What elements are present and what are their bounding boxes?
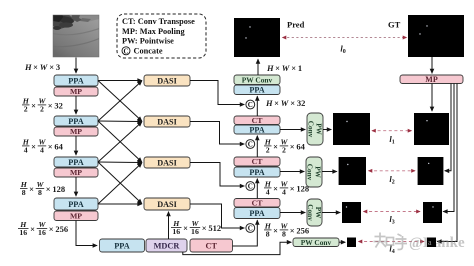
svg-text:×: × <box>273 183 278 193</box>
svg-text:MP: MP <box>70 127 82 136</box>
svg-text:2: 2 <box>40 105 44 114</box>
wire CT3 to PPA decoder 2 <box>256 136 258 157</box>
svg-text:H: H <box>24 62 32 72</box>
svg-text:H: H <box>266 63 274 73</box>
svg-text:MP: MP <box>70 87 82 96</box>
svg-text:CT: Conv Transpose: CT: Conv Transpose <box>122 17 195 26</box>
svg-text:256: 256 <box>296 225 309 235</box>
block MP level 4 <box>54 211 98 221</box>
wire MP3 to PPA4 <box>75 177 77 196</box>
block PPA decoder 2 <box>234 125 280 134</box>
block DASI 2 <box>144 116 190 127</box>
svg-text:PPA: PPA <box>68 117 84 126</box>
block PW Conv head 2 <box>306 157 322 187</box>
concat circle C4 <box>246 224 255 233</box>
GT image level 4 <box>427 238 436 248</box>
svg-text:×: × <box>202 223 207 233</box>
wire PW Conv top to Pred <box>257 59 259 75</box>
wire PPA3 to DASI3 <box>98 161 142 164</box>
svg-text:×: × <box>33 62 38 72</box>
wire MDCR to DASI4 <box>168 212 170 239</box>
pred image level 2 <box>339 157 366 185</box>
label H/2 x W/2 x 64 <box>264 137 306 154</box>
concat circle C2 <box>246 140 255 149</box>
svg-text:2: 2 <box>282 146 286 155</box>
svg-text:8: 8 <box>22 188 26 197</box>
wire DASI1 to concat C1 <box>190 81 244 105</box>
block PPA encoder level 2 <box>54 116 98 126</box>
svg-text:×: × <box>290 141 295 151</box>
wire PPA2 to DASI2 <box>98 120 142 123</box>
svg-text:CT: CT <box>252 116 264 125</box>
svg-text:16: 16 <box>172 227 180 236</box>
svg-text:PW: PW <box>314 207 322 219</box>
wire MP1 to PPA2 <box>75 96 77 114</box>
block MDCR <box>146 239 187 252</box>
svg-text:PW: Pointwise: PW: Pointwise <box>122 37 174 46</box>
svg-text:4: 4 <box>266 188 270 197</box>
svg-text:GT: GT <box>388 19 401 29</box>
pred image level 4 <box>347 238 356 248</box>
svg-text:×: × <box>275 63 280 73</box>
wire DASI4 to concat C4 <box>190 204 244 228</box>
wire MP2 to PPA3 <box>75 136 77 155</box>
svg-text:×: × <box>273 141 278 151</box>
wire PW head 3 to pred level 3 <box>322 212 340 214</box>
block CT decoder 2 <box>234 116 280 125</box>
svg-text:4: 4 <box>282 188 286 197</box>
svg-text:×: × <box>273 225 278 235</box>
block DASI 3 <box>144 157 190 168</box>
wire PPA3 to DASI4 <box>98 162 142 204</box>
svg-text:16: 16 <box>38 228 46 237</box>
wire MDCR to PW Conv head 4 <box>183 242 291 254</box>
svg-text:4: 4 <box>24 146 28 155</box>
input image H x W x 3 <box>53 15 99 57</box>
block PPA decoder 4 <box>234 208 280 219</box>
block MP level 1 <box>54 87 98 96</box>
svg-text:×: × <box>46 184 51 194</box>
svg-text:32: 32 <box>54 100 63 110</box>
wire PPA4 to DASI3 <box>98 163 142 204</box>
wire MP to GT level 2 <box>445 84 451 171</box>
svg-text:MP: MP <box>70 168 82 177</box>
svg-text:PW Conv: PW Conv <box>301 238 332 247</box>
svg-text:PPA: PPA <box>249 168 264 177</box>
svg-text:PW: PW <box>315 123 323 135</box>
wire MP to GT level 1 <box>431 84 433 112</box>
svg-text:MP: MP <box>70 211 82 220</box>
block PPA encoder level 3 <box>54 157 98 167</box>
wire MP4 to bottleneck PPA <box>76 221 97 246</box>
svg-text:×: × <box>48 141 53 151</box>
svg-text:16: 16 <box>19 228 27 237</box>
svg-text:C: C <box>248 101 253 109</box>
legend box <box>117 14 206 58</box>
svg-text:H: H <box>265 98 273 108</box>
block PW Conv head 1 <box>307 113 323 145</box>
svg-text:4: 4 <box>40 146 44 155</box>
svg-text:×: × <box>274 98 279 108</box>
label H/16 x W/16 x 256 <box>18 220 68 237</box>
svg-text:PPA: PPA <box>68 76 84 85</box>
loss l0 dashed arrow <box>283 38 407 56</box>
svg-text:PW Conv: PW Conv <box>242 75 273 84</box>
wire PPA decoder 2 to PW head 1 <box>280 129 305 131</box>
wire PPA decoder 4 to PW head 3 <box>280 212 305 214</box>
GT image level 1 <box>414 113 449 145</box>
svg-text:@Danke: @Danke <box>409 235 465 251</box>
block CT bottleneck <box>190 239 233 252</box>
svg-text:512: 512 <box>208 223 221 233</box>
svg-text:×: × <box>290 225 295 235</box>
block PPA decoder 3 <box>234 167 280 177</box>
label H x W x 1 <box>266 63 302 73</box>
svg-text:64: 64 <box>54 141 63 151</box>
svg-text:Pred: Pred <box>287 19 305 29</box>
svg-text:×: × <box>49 62 54 72</box>
block PW Conv head 3 <box>306 199 322 226</box>
svg-text:16: 16 <box>191 227 199 236</box>
svg-text:×: × <box>31 141 36 151</box>
wire PW Conv head 4 to pred level 4 <box>339 241 345 243</box>
loss l3 dashed arrow <box>364 212 421 226</box>
svg-text:C: C <box>124 48 129 55</box>
svg-text:×: × <box>30 224 35 234</box>
block PPA bottleneck <box>100 239 145 252</box>
svg-text:×: × <box>183 223 188 233</box>
block PPA encoder level 1 <box>54 75 98 86</box>
label H x W x 32 <box>265 98 305 108</box>
label H/8 x W/8 x 128 <box>20 180 65 197</box>
svg-text:CT: CT <box>252 198 264 207</box>
svg-text:C: C <box>248 225 253 233</box>
svg-text:Concate: Concate <box>134 47 163 56</box>
svg-text:256: 256 <box>55 224 68 234</box>
block CT decoder 3 <box>234 157 280 166</box>
svg-text:CT: CT <box>252 157 264 166</box>
watermark zhihu <box>374 233 408 250</box>
loss l2 dashed arrow <box>369 171 416 186</box>
wire PPA3 to DASI2 <box>98 122 142 162</box>
block DASI 1 <box>144 75 190 86</box>
wire PPA1 to DASI1 <box>98 80 142 82</box>
wire MP to GT level 4 <box>437 84 457 242</box>
block PW Conv head 4 <box>293 238 339 247</box>
concat circle C3 <box>246 182 255 191</box>
label H x W x 3 <box>24 62 60 72</box>
svg-text:2: 2 <box>266 146 270 155</box>
svg-text:Conv: Conv <box>307 121 315 138</box>
svg-text:8: 8 <box>266 230 270 239</box>
svg-text:8: 8 <box>282 230 286 239</box>
svg-text:2: 2 <box>24 105 28 114</box>
block PPA decoder top <box>234 85 280 95</box>
svg-text:DASI: DASI <box>157 200 177 209</box>
svg-text:8: 8 <box>38 188 42 197</box>
block MP downsample GT <box>400 75 463 84</box>
wire GT to MP <box>431 57 433 73</box>
svg-text:PPA: PPA <box>114 241 130 250</box>
svg-text:MDCR: MDCR <box>154 241 181 250</box>
wire PW head 2 to pred level 2 <box>322 171 337 173</box>
block PW Conv decoder top <box>234 75 280 85</box>
wire CT bottleneck to PPA decoder 4 <box>233 220 258 246</box>
svg-text:CT: CT <box>205 241 217 250</box>
loss l1 dashed arrow <box>372 131 412 146</box>
svg-text:1: 1 <box>298 63 302 73</box>
svg-text:×: × <box>290 98 295 108</box>
wire CT4 to PPA decoder 3 <box>256 179 258 199</box>
svg-text:×: × <box>290 183 295 193</box>
svg-text:×: × <box>48 100 53 110</box>
wire CT2 to PPA decoder top <box>256 96 258 116</box>
svg-text:a: a <box>428 238 432 247</box>
wire PPA decoder 3 to PW head 2 <box>280 171 304 173</box>
svg-text:3: 3 <box>56 62 60 72</box>
pred image level 3 <box>342 202 361 223</box>
svg-text:32: 32 <box>297 98 306 108</box>
label H/2 x W/2 x 32 <box>22 96 63 113</box>
svg-text:DASI: DASI <box>157 76 177 85</box>
svg-text:DASI: DASI <box>157 158 177 167</box>
label H/8 x W/8 x 256 <box>264 221 309 238</box>
block DASI 4 <box>144 198 190 210</box>
svg-text:128: 128 <box>52 184 65 194</box>
wire PPA2 to DASI1 <box>98 81 142 121</box>
svg-text:×: × <box>29 184 34 194</box>
wire input image to PPA1 <box>75 58 77 74</box>
svg-text:PPA: PPA <box>249 209 264 218</box>
block CT decoder 4 <box>234 198 280 207</box>
pred image full scale <box>234 18 280 57</box>
svg-text:Conv: Conv <box>306 164 314 181</box>
svg-text:MP: Max Pooling: MP: Max Pooling <box>122 27 186 36</box>
loss l4 dashed arrow <box>359 242 425 256</box>
svg-text:C: C <box>248 141 253 149</box>
wire PPA4 to DASI4 <box>98 203 142 205</box>
block PPA encoder level 4 <box>54 198 98 210</box>
svg-text:MP: MP <box>425 75 438 84</box>
wire MP to GT level 3 <box>443 84 454 212</box>
block MP level 3 <box>54 168 98 177</box>
label H/4 x W/4 x 64 <box>22 137 64 154</box>
label H/16 x W/16 x 512 <box>171 219 221 236</box>
wire DASI2 to concat C2 <box>190 122 244 145</box>
GT image level 3 <box>423 202 442 223</box>
svg-text:×: × <box>49 224 54 234</box>
label H/4 x W/4 x 128 <box>264 179 309 196</box>
svg-text:C: C <box>248 183 253 191</box>
svg-text:PPA: PPA <box>68 158 84 167</box>
wire PW head 1 to pred level 1 <box>323 129 331 131</box>
GT image full scale <box>408 15 464 57</box>
wire PPA1 to DASI2 <box>98 81 142 122</box>
concat circle C1 <box>246 100 255 109</box>
wire PPA2 to DASI3 <box>98 121 142 162</box>
svg-text:PPA: PPA <box>249 86 264 95</box>
svg-text:×: × <box>31 100 36 110</box>
svg-text:64: 64 <box>296 141 305 151</box>
wire DASI3 to concat C3 <box>190 163 244 187</box>
svg-text:DASI: DASI <box>157 117 177 126</box>
svg-text:×: × <box>291 63 296 73</box>
svg-text:PW: PW <box>314 166 322 178</box>
svg-text:Conv: Conv <box>306 204 314 221</box>
pred image level 1 <box>333 113 370 145</box>
block MP level 2 <box>54 127 98 136</box>
svg-text:PPA: PPA <box>249 125 264 134</box>
GT image level 2 <box>418 157 444 185</box>
svg-text:PPA: PPA <box>68 200 84 209</box>
